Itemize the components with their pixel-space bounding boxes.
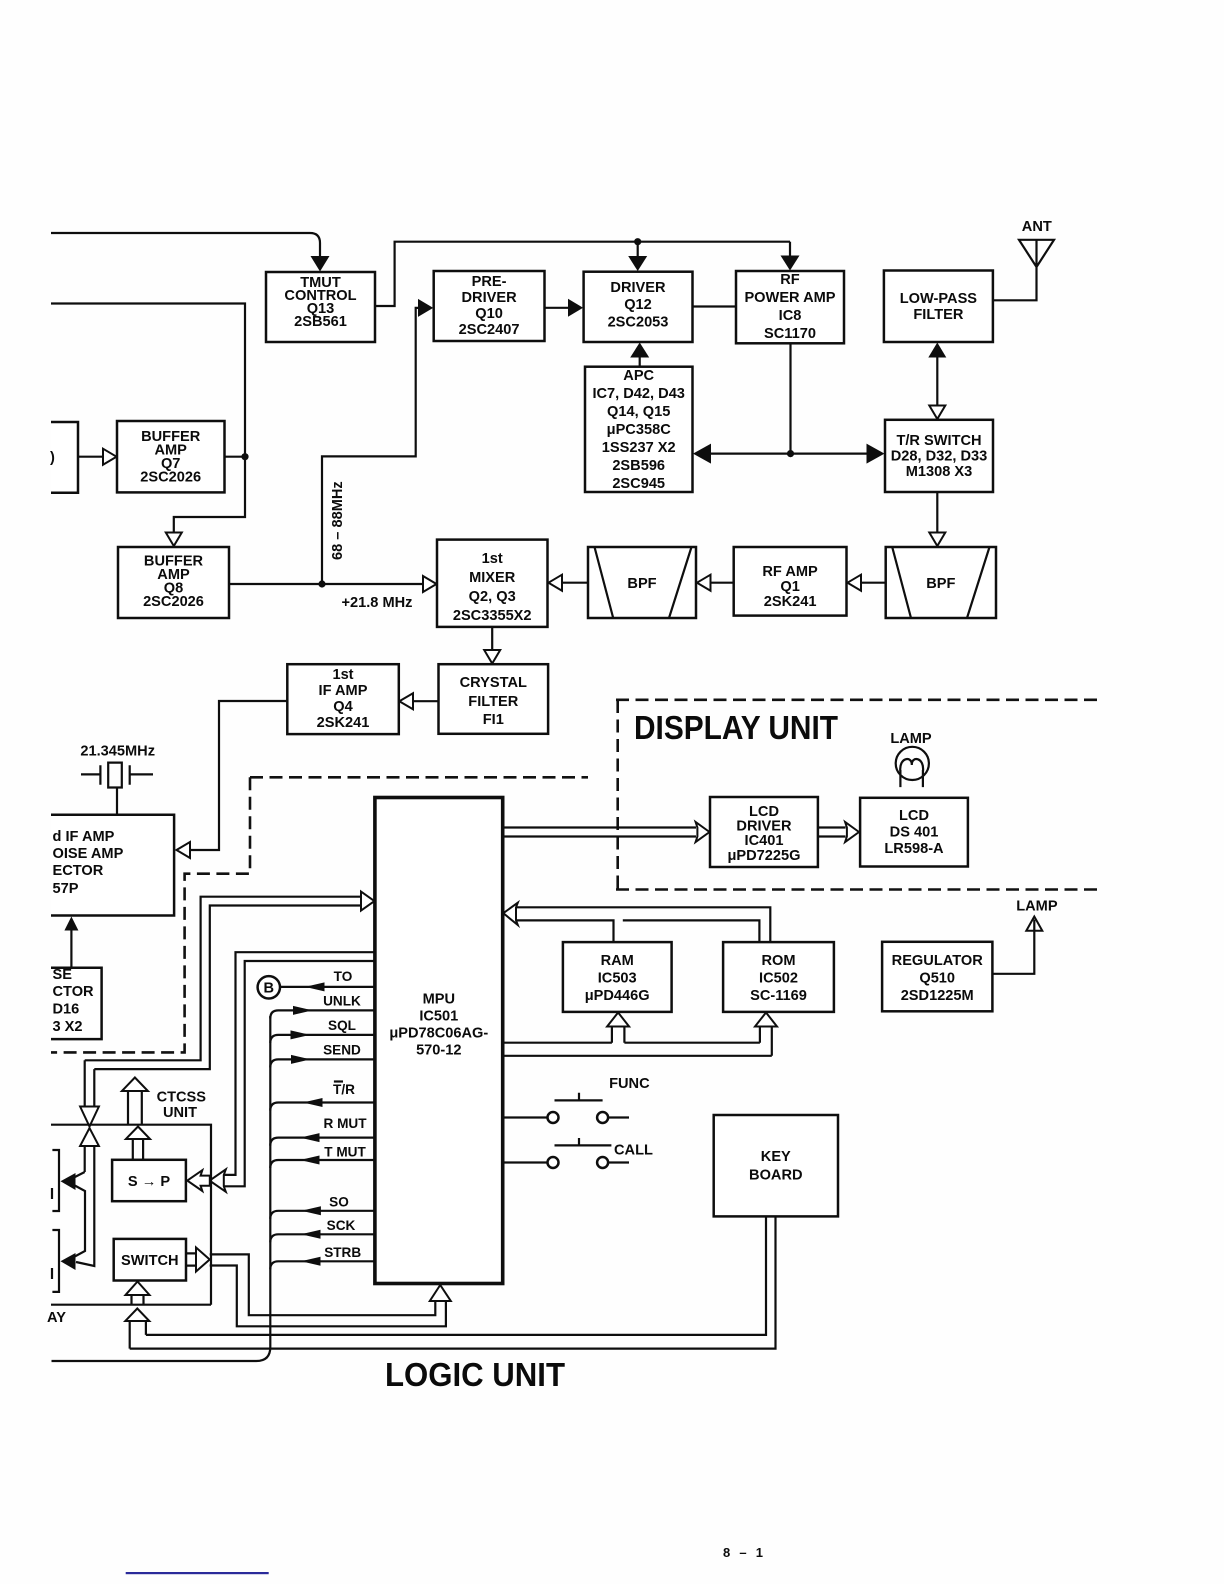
wire TMUT output up and right along top to driver row — [375, 242, 790, 306]
SECTION-TOP — [50, 219, 1054, 618]
box MPU IC501 (thick border) — [375, 798, 503, 1284]
wire from left edge turning down at x=245 — [51, 304, 245, 533]
box RF AMP Q1 — [734, 547, 847, 616]
box 1st MIXER — [437, 540, 548, 627]
bus2 MPU left to S-P — [224, 952, 375, 1186]
lamp symbol — [896, 747, 929, 780]
CALL switch — [503, 1138, 629, 1163]
wire stub down into DRIVER — [637, 242, 639, 257]
barbed bus arrow into MPU right — [503, 903, 518, 925]
box PRE-DRIVER Q10 — [434, 271, 545, 341]
svg-text:LAMP: LAMP — [890, 731, 932, 747]
svg-text:R MUT: R MUT — [323, 1116, 367, 1131]
signal line SCK — [270, 1234, 375, 1242]
signal line SQL — [270, 1035, 375, 1043]
wire RF AMP to BPF — [711, 582, 734, 584]
svg-text:LAMP: LAMP — [1016, 899, 1058, 915]
signal line T MUT — [270, 1160, 375, 1168]
wire stub down into RF POWER AMP — [789, 242, 791, 257]
signal line SEND — [270, 1059, 375, 1067]
box REGULATOR Q510 — [882, 942, 992, 1012]
box T/R SWITCH — [885, 420, 993, 492]
open arrow into BUFFER AMP Q7 left — [103, 449, 117, 465]
wire Q7 output to vertical — [225, 456, 246, 458]
solid arrow up into LPF bottom — [928, 343, 946, 358]
solid arrow into DRIVER top — [628, 256, 647, 271]
wire 1st IF AMP down-left to 2nd IF AMP — [190, 701, 287, 850]
S-P up hollow arrow — [133, 1139, 143, 1160]
SWITCH bottom hollow arrow from AY rail — [132, 1295, 144, 1305]
collector vertical down from signal elbows — [52, 1016, 271, 1361]
open arrow down into T/R SWITCH top — [929, 406, 945, 420]
hollow up arrow below crossing — [80, 1128, 99, 1146]
box 1st IF AMP Q4 — [287, 664, 399, 734]
svg-text:T MUT: T MUT — [324, 1145, 366, 1160]
svg-text:8 – 1: 8 – 1 — [723, 1545, 763, 1560]
wire LPF to T/R SWITCH vertical with arrows — [936, 356, 938, 406]
wire DRIVER to RF POWER AMP — [693, 305, 737, 307]
svg-text:AY: AY — [47, 1310, 66, 1326]
svg-text:SWITCH: SWITCH — [121, 1253, 179, 1269]
SECTION-MID — [51, 540, 1098, 1053]
open arrow into BPF top — [929, 533, 945, 547]
FUNC switch — [503, 1093, 629, 1118]
svg-text:BPF: BPF — [627, 576, 656, 592]
box SWITCH — [114, 1239, 186, 1281]
MPU bottom hollow arrow — [430, 1285, 451, 1301]
horizontal rail and right vertical (S-P/SWITCH enclosure) — [51, 1125, 211, 1305]
dashed boundary LOGIC unit upper — [51, 777, 588, 1052]
box BUFFER AMP Q7 — [117, 421, 225, 492]
box LCD DRIVER IC401 — [710, 797, 818, 867]
wire REGULATOR to lamp arrow — [992, 920, 1034, 974]
box BPF right — [886, 547, 996, 618]
dashed boundary DISPLAY UNIT — [616, 700, 1098, 890]
wire 68-88MHz vertical feeding PRE-DRIVER — [322, 308, 420, 584]
svg-text:+21.8 MHz: +21.8 MHz — [342, 595, 413, 611]
SECTION-BOTTOM — [126, 903, 838, 1574]
svg-text:21.345MHz: 21.345MHz — [80, 744, 155, 760]
open arrow into 1st MIXER left — [423, 576, 437, 592]
wire 1st MIXER down to CRYSTAL FILTER — [491, 627, 493, 650]
partial box B right edge — [52, 1230, 59, 1292]
solid arrow into PRE-DRIVER left — [418, 299, 433, 317]
bus1 into MPU left (from below-left) — [85, 897, 361, 1069]
feed rails from MPU right to RAM/ROM bottom arrows — [503, 1043, 772, 1056]
long keyboard loop rails L3 L4 — [130, 1216, 776, 1348]
junction dot at Q7 output — [241, 453, 248, 460]
box NOISE DETECTOR (clipped at left) — [51, 968, 102, 1039]
box RAM IC503 — [563, 942, 672, 1012]
box TMUT CONTROL Q13 — [266, 272, 375, 342]
svg-text:UNLK: UNLK — [323, 994, 361, 1009]
signal line SO — [270, 1211, 375, 1219]
hollow arrow up into AY rail from below — [125, 1309, 149, 1322]
solid arrow into DRIVER left — [568, 299, 583, 317]
feeder arrows into partial box B — [61, 1253, 76, 1270]
box ROM IC502 — [723, 942, 834, 1012]
switch output pair to MPU bottom arrow — [210, 1254, 446, 1326]
box APC — [585, 367, 693, 492]
signal line UNLK — [270, 1010, 375, 1018]
antenna symbol ANT — [993, 240, 1054, 300]
box RF POWER AMP IC8 — [736, 271, 844, 343]
solid arrow into TMUT top — [311, 256, 330, 272]
box CRYSTAL FILTER FI1 — [439, 664, 549, 734]
CTCSS hollow arrow — [128, 1091, 142, 1125]
feeder arrows into partial box A — [72, 1172, 85, 1258]
barbed arrow 1 into S-P right — [187, 1170, 210, 1191]
wire BPF2 to RF AMP — [861, 582, 886, 584]
bus MPU right to RAM and ROM tops — [516, 907, 770, 942]
solid arrow into RF POWER AMP top — [781, 256, 800, 271]
solid arrow NOISE DET up into 2nd IF AMP — [70, 929, 72, 968]
hollow down arrow of bus1 at crossing — [85, 1060, 95, 1107]
box 2nd IF AMP (clipped at left) — [51, 815, 174, 916]
svg-text:T/R: T/R — [333, 1082, 355, 1097]
wire T/R SWITCH down to BPF — [936, 492, 938, 533]
svg-text:SCK: SCK — [327, 1218, 356, 1233]
ROM bottom hollow arrow — [755, 1013, 777, 1027]
svg-text:B: B — [264, 981, 275, 997]
wire partial box to Q7 — [78, 456, 103, 458]
blue underline mark — [126, 1572, 269, 1574]
svg-text:BPF: BPF — [926, 576, 955, 592]
partial box A right edge — [52, 1150, 59, 1211]
solid arrow into T/R SWITCH left — [867, 444, 885, 464]
svg-text:ANT: ANT — [1022, 219, 1052, 235]
solid arrow up from APC into DRIVER bottom — [639, 355, 641, 367]
box BUFFER AMP Q8 — [118, 547, 229, 618]
box BPF left — [588, 547, 696, 618]
open arrow into BUFFER AMP Q8 top — [166, 533, 182, 547]
signal line R MUT — [270, 1138, 375, 1146]
junction dot above DRIVER — [634, 238, 641, 245]
svg-text:STRB: STRB — [324, 1245, 361, 1260]
box KEY BOARD — [714, 1115, 838, 1216]
svg-text:S → P: S → P — [128, 1174, 170, 1190]
RAM bottom hollow arrow — [607, 1013, 629, 1027]
signal line TO with circle B — [280, 986, 375, 988]
svg-text:SO: SO — [329, 1194, 349, 1209]
bus LCD DRIVER to LCD — [818, 828, 846, 837]
wire BPF to 1st MIXER — [562, 582, 588, 584]
bus MPU to LCD DRIVER — [503, 828, 696, 837]
svg-text:FUNC: FUNC — [609, 1076, 650, 1092]
open arrow up to LAMP — [1026, 917, 1042, 931]
box LOW-PASS FILTER — [884, 271, 993, 343]
partial box at left edge (clipped) — [51, 422, 78, 493]
svg-text:CALL: CALL — [614, 1143, 653, 1159]
SECTION-LOGIC — [47, 798, 776, 1362]
wire from left edge into TMUT CONTROL top — [51, 233, 320, 258]
box DRIVER Q12 — [584, 272, 693, 342]
svg-text:TO: TO — [334, 969, 353, 984]
wire PRE-DRIVER to DRIVER — [545, 307, 571, 309]
svg-text:SQL: SQL — [328, 1018, 356, 1033]
svg-text:68 – 88MHz: 68 – 88MHz — [330, 481, 346, 560]
svg-text:): ) — [50, 450, 55, 466]
signal line STRB — [270, 1261, 375, 1269]
wire Q8 output to 1st MIXER — [229, 583, 423, 585]
barbed arrow 2 into S-P right — [210, 1169, 226, 1191]
svg-text:DISPLAY UNIT: DISPLAY UNIT — [634, 710, 838, 747]
wire RF POWER AMP bottom to APC / T-R switch row — [709, 343, 871, 453]
svg-text:SEND: SEND — [323, 1043, 361, 1058]
wire CRYSTAL FILTER to 1st IF AMP — [413, 700, 439, 702]
box LCD DS401 — [860, 798, 968, 867]
SWITCH right hollow arrow out — [186, 1253, 196, 1265]
solid arrow into APC right — [693, 444, 711, 464]
box S to P — [112, 1160, 186, 1201]
signal line T/R (overline T) — [270, 1103, 375, 1111]
svg-text:LOGIC UNIT: LOGIC UNIT — [385, 1356, 565, 1393]
